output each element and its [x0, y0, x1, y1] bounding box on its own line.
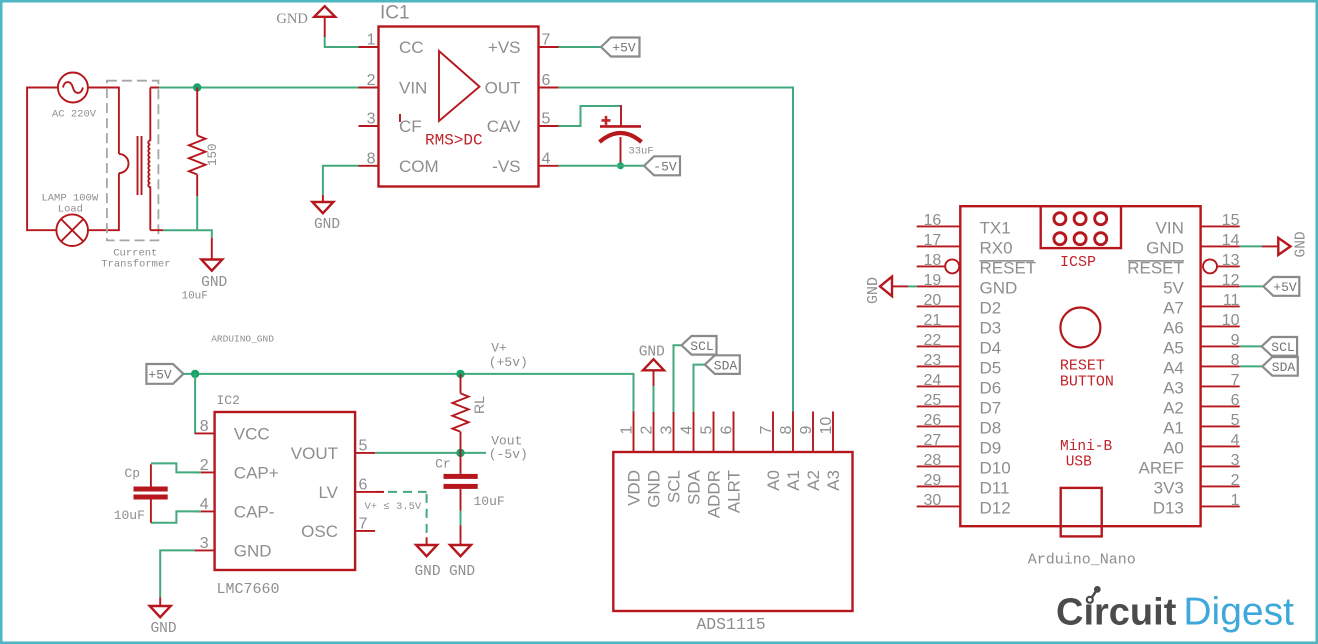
svg-text:A3: A3 [1163, 378, 1184, 397]
svg-text:SCL: SCL [1271, 340, 1294, 355]
svg-text:SDA: SDA [1272, 360, 1296, 375]
svg-text:V+ ≤ 3.5V: V+ ≤ 3.5V [365, 501, 422, 513]
svg-text:Cr: Cr [435, 456, 451, 471]
svg-text:GND: GND [276, 11, 307, 27]
svg-text:GND: GND [201, 275, 227, 291]
svg-text:18: 18 [924, 252, 942, 269]
svg-text:CC: CC [399, 38, 424, 57]
svg-text:AC 220V: AC 220V [52, 109, 97, 121]
svg-text:ALRT: ALRT [724, 470, 743, 513]
svg-text:2: 2 [200, 457, 209, 474]
svg-text:7: 7 [359, 516, 368, 533]
svg-text:13: 13 [1222, 252, 1240, 269]
svg-text:RESET: RESET [1060, 357, 1105, 374]
svg-text:Arduino_Nano: Arduino_Nano [1028, 552, 1136, 569]
svg-text:+5V: +5V [148, 367, 172, 382]
svg-text:4: 4 [1231, 432, 1240, 449]
svg-text:25: 25 [924, 392, 942, 409]
svg-text:6: 6 [359, 477, 368, 494]
svg-text:D10: D10 [980, 458, 1011, 477]
svg-text:3: 3 [1231, 452, 1240, 469]
svg-text:RMS>DC: RMS>DC [425, 132, 483, 150]
svg-text:D7: D7 [980, 398, 1002, 417]
svg-text:ARDUINO_GND: ARDUINO_GND [211, 334, 274, 345]
svg-text:Mini-B: Mini-B [1060, 439, 1113, 455]
svg-text:A1: A1 [784, 470, 803, 491]
svg-text:GND: GND [639, 344, 665, 360]
svg-text:IC2: IC2 [217, 393, 240, 408]
svg-text:BUTTON: BUTTON [1060, 374, 1114, 391]
svg-text:GND: GND [234, 541, 272, 560]
svg-text:9: 9 [798, 426, 815, 435]
svg-text:21: 21 [924, 312, 942, 329]
svg-text:A0: A0 [1163, 438, 1184, 457]
svg-text:11: 11 [1223, 292, 1240, 309]
svg-text:OUT: OUT [485, 79, 521, 98]
svg-text:5: 5 [542, 111, 551, 128]
svg-text:ADS1115: ADS1115 [696, 615, 765, 634]
svg-text:19: 19 [924, 272, 942, 289]
svg-text:D4: D4 [980, 338, 1002, 357]
svg-text:10uF: 10uF [474, 494, 505, 509]
svg-text:D8: D8 [980, 418, 1002, 437]
svg-text:28: 28 [924, 452, 942, 469]
svg-text:27: 27 [924, 432, 942, 449]
svg-text:IC1: IC1 [380, 3, 410, 24]
svg-text:-VS: -VS [492, 157, 520, 176]
svg-text:OSC: OSC [301, 522, 338, 541]
svg-text:VCC: VCC [234, 424, 270, 443]
svg-text:A5: A5 [1163, 338, 1184, 357]
svg-text:4: 4 [678, 426, 695, 435]
svg-text:8: 8 [367, 150, 376, 167]
svg-text:5: 5 [359, 438, 368, 455]
svg-text:3: 3 [367, 111, 376, 128]
svg-text:4: 4 [200, 496, 209, 513]
svg-text:Transformer: Transformer [101, 259, 170, 271]
svg-text:A3: A3 [824, 470, 843, 491]
svg-text:D9: D9 [980, 438, 1002, 457]
svg-text:9: 9 [1231, 332, 1240, 349]
svg-text:16: 16 [924, 212, 942, 229]
svg-text:VIN: VIN [399, 79, 427, 98]
svg-text:A2: A2 [804, 470, 823, 491]
svg-text:RL: RL [471, 396, 487, 414]
svg-text:VOUT: VOUT [291, 444, 338, 463]
svg-text:5: 5 [698, 426, 715, 435]
svg-text:Current: Current [113, 247, 157, 259]
svg-text:RX0: RX0 [980, 238, 1013, 257]
svg-text:22: 22 [924, 332, 942, 349]
svg-text:A7: A7 [1163, 298, 1184, 317]
svg-text:SCL: SCL [690, 339, 713, 354]
svg-text:+VS: +VS [488, 38, 521, 57]
svg-text:A0: A0 [764, 470, 783, 491]
svg-text:V+: V+ [491, 341, 507, 356]
svg-text:LAMP 100W: LAMP 100W [41, 192, 98, 204]
svg-text:3: 3 [200, 535, 209, 552]
svg-text:Cırcuit: Cırcuit [1056, 592, 1177, 634]
svg-text:ICSP: ICSP [1060, 254, 1096, 271]
svg-text:D11: D11 [980, 478, 1010, 497]
svg-text:150: 150 [206, 143, 220, 166]
svg-text:SDA: SDA [714, 358, 738, 373]
svg-text:LV: LV [318, 483, 338, 502]
svg-text:23: 23 [924, 352, 942, 369]
svg-text:10uF: 10uF [181, 291, 207, 303]
svg-text:10uF: 10uF [114, 508, 145, 523]
svg-text:D13: D13 [1153, 498, 1184, 517]
svg-text:6: 6 [1231, 392, 1240, 409]
svg-text:COM: COM [399, 157, 439, 176]
svg-text:D12: D12 [980, 498, 1011, 517]
svg-text:A1: A1 [1163, 418, 1184, 437]
svg-text:1: 1 [618, 426, 635, 435]
svg-text:10: 10 [818, 417, 835, 435]
svg-text:A2: A2 [1163, 398, 1184, 417]
svg-text:D5: D5 [980, 358, 1002, 377]
svg-text:Cp: Cp [124, 466, 140, 481]
svg-text:GND: GND [1294, 231, 1310, 257]
svg-text:5: 5 [1231, 412, 1240, 429]
svg-text:5V: 5V [1163, 278, 1184, 297]
svg-text:8: 8 [200, 418, 209, 435]
svg-text:6: 6 [542, 72, 551, 89]
svg-text:4: 4 [542, 150, 551, 167]
svg-text:-5V: -5V [653, 159, 677, 174]
svg-text:33uF: 33uF [628, 145, 653, 157]
svg-text:8: 8 [778, 426, 795, 435]
svg-text:(-5v): (-5v) [489, 447, 528, 462]
svg-text:D6: D6 [980, 378, 1002, 397]
svg-text:GND: GND [865, 277, 882, 304]
svg-text:7: 7 [542, 32, 551, 49]
svg-text:30: 30 [924, 492, 942, 509]
svg-text:Load: Load [58, 204, 83, 216]
svg-text:VIN: VIN [1156, 218, 1184, 237]
svg-text:+5V: +5V [1273, 280, 1297, 295]
svg-text:ADDR: ADDR [704, 470, 723, 518]
svg-text:CAV: CAV [487, 117, 521, 136]
svg-text:2: 2 [638, 426, 655, 435]
svg-text:A6: A6 [1163, 318, 1184, 337]
svg-text:29: 29 [924, 472, 942, 489]
svg-text:D2: D2 [980, 298, 1002, 317]
svg-text:7: 7 [758, 426, 775, 435]
svg-text:LMC7660: LMC7660 [217, 581, 280, 598]
svg-text:7: 7 [1231, 372, 1240, 389]
svg-text:USB: USB [1066, 455, 1092, 471]
svg-text:GND: GND [644, 470, 663, 508]
svg-text:GND: GND [1146, 238, 1184, 257]
svg-text:3V3: 3V3 [1154, 478, 1184, 497]
svg-text:Digest: Digest [1183, 591, 1294, 634]
svg-text:3: 3 [658, 426, 675, 435]
svg-text:26: 26 [924, 412, 942, 429]
svg-text:17: 17 [924, 232, 942, 249]
svg-text:GND: GND [414, 564, 440, 580]
svg-text:AREF: AREF [1139, 458, 1184, 477]
svg-text:8: 8 [1231, 352, 1240, 369]
svg-text:CF: CF [399, 117, 422, 136]
svg-text:2: 2 [367, 72, 376, 89]
svg-text:VDD: VDD [624, 470, 643, 506]
svg-text:GND: GND [314, 217, 340, 233]
svg-text:14: 14 [1222, 232, 1240, 249]
svg-text:2: 2 [1231, 472, 1240, 489]
svg-text:GND: GND [449, 564, 475, 580]
svg-text:20: 20 [924, 292, 942, 309]
svg-text:SCL: SCL [664, 470, 683, 503]
svg-text:A4: A4 [1163, 358, 1184, 377]
svg-text:SDA: SDA [684, 469, 703, 505]
svg-text:1: 1 [367, 32, 376, 49]
svg-text:12: 12 [1222, 272, 1240, 289]
svg-text:10: 10 [1222, 312, 1240, 329]
svg-text:15: 15 [1222, 212, 1240, 229]
svg-text:TX1: TX1 [980, 218, 1011, 237]
svg-text:D3: D3 [980, 318, 1002, 337]
svg-text:6: 6 [718, 426, 735, 435]
svg-text:(+5v): (+5v) [489, 355, 528, 370]
svg-text:CAP-: CAP- [234, 502, 275, 521]
svg-text:GND: GND [980, 278, 1018, 297]
svg-text:GND: GND [150, 621, 176, 637]
svg-text:+5V: +5V [612, 41, 636, 56]
svg-text:CAP+: CAP+ [234, 463, 279, 482]
svg-text:24: 24 [924, 372, 942, 389]
svg-text:1: 1 [1231, 492, 1240, 509]
